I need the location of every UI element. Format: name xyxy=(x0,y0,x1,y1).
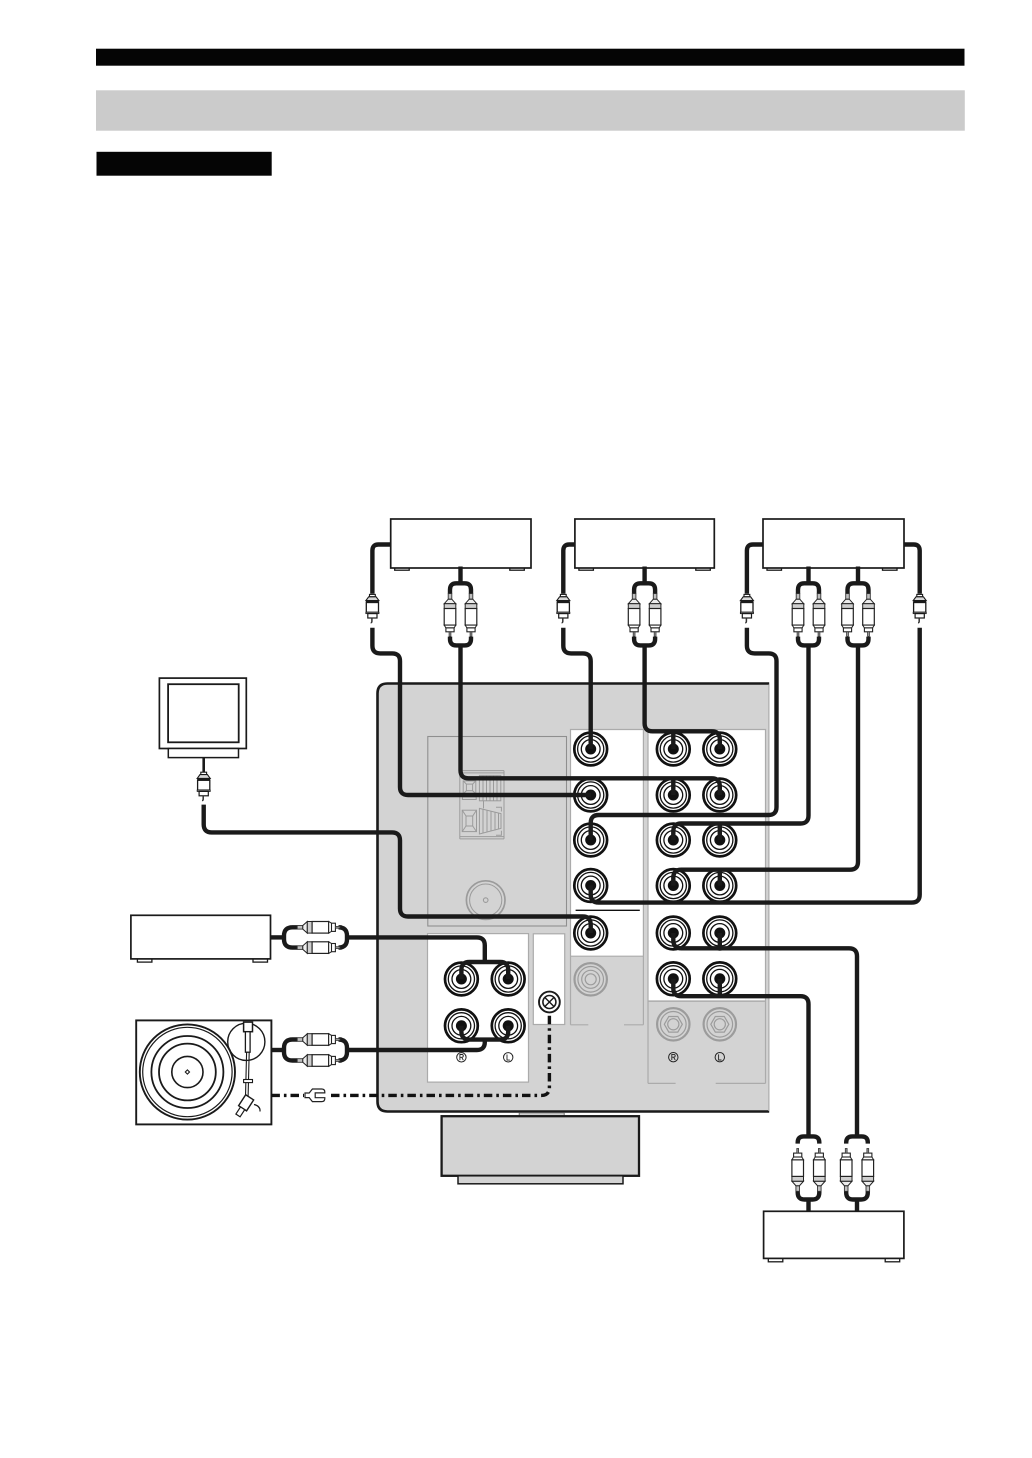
wire W14c: recorder left pair merge bracket xyxy=(798,1191,820,1199)
wire W6a: B3 audio in lead xyxy=(806,567,810,582)
audio jack gray unused R xyxy=(704,1008,736,1040)
wire W7c: B3 audio pair2 merge bracket xyxy=(848,637,869,646)
wire W14e: recorder left pair lead to box xyxy=(806,1200,810,1212)
CD jack R (top pair right) xyxy=(492,963,525,996)
audio jack pair row3 L xyxy=(657,824,690,857)
audio jack pair row6 R xyxy=(703,962,736,995)
wire W9a: TV monitor thin lead xyxy=(202,758,205,772)
CD recorder box feet xyxy=(768,1257,783,1262)
audio jack pair row6 L xyxy=(657,962,690,995)
wire W2c: B1 audio merge bracket xyxy=(450,637,471,646)
wire W3b: B2 video plug to VIDEO row1 jack xyxy=(563,628,590,749)
label L (audio panel) xyxy=(715,1053,724,1062)
wire W2e: row2 left jack stub xyxy=(671,779,675,795)
video jack DVD (row1) xyxy=(574,733,607,766)
video plug P8 (B3 right) xyxy=(913,594,926,622)
audio pair plugs P13 (recorder right, up) xyxy=(840,1149,852,1192)
PHONO jack R xyxy=(492,1009,525,1042)
CD jack L (top pair left) xyxy=(445,963,478,996)
turntable tonearm circle xyxy=(228,1023,265,1060)
wire W6c: B3 audio pair1 merge bracket xyxy=(798,637,819,646)
wire W13b: row6 right jack stub xyxy=(718,979,722,996)
header black bar xyxy=(96,49,965,66)
wire W14a: recorder left pair split bracket xyxy=(798,1136,820,1143)
wire W6b: B3 audio pair1 split bracket xyxy=(798,583,819,593)
audio jack pair row5 R xyxy=(703,917,736,950)
connecting tab under panel xyxy=(519,1113,564,1117)
wire W12a: AUDIO row5 jacks to recorder right pair xyxy=(673,933,857,1137)
video jack VCR IN (row3) xyxy=(574,824,607,857)
wire W8a: B3 video out lead xyxy=(904,545,920,594)
wire W5b: B3 left plug to VIDEO row3 jack xyxy=(591,628,777,840)
cd/phono jack panel xyxy=(428,934,529,1083)
wire W11d: phono cable to PHONO jacks xyxy=(347,1040,485,1050)
CD player box feet xyxy=(137,958,152,963)
pedestal plinth xyxy=(458,1176,623,1184)
audio jack pair row1 R xyxy=(703,733,736,766)
audio pair plugs P7 (B3 pair2) xyxy=(842,594,854,637)
audio jack panel xyxy=(648,730,766,1084)
section gray bar xyxy=(96,90,965,130)
video jack unused (gray) xyxy=(575,963,607,995)
pedestal box below receiver xyxy=(442,1116,639,1176)
video jack strip xyxy=(571,730,644,1025)
label L (cd/phono panel) xyxy=(504,1053,513,1062)
wire W10a: CD player lead xyxy=(271,935,285,939)
label R (cd/phono panel) xyxy=(457,1053,466,1062)
audio jack pair row1 L xyxy=(657,733,690,766)
tonearm thin shaft xyxy=(245,1052,249,1100)
video plug P5 (B3 left) xyxy=(740,594,753,622)
wire W7b: B3 audio pair2 split bracket xyxy=(848,583,869,593)
tonearm headshell cartridge xyxy=(234,1095,254,1118)
ground wire dash-dot segment 2 to GND screw xyxy=(331,1013,549,1095)
wire W14d: recorder right pair merge bracket xyxy=(846,1191,868,1199)
wire W3a: B2 video out lead xyxy=(563,545,575,594)
wire W2b: B1 audio split bracket xyxy=(450,583,471,593)
wire W6e: row3 right jack stub xyxy=(718,824,722,840)
TV monitor screen xyxy=(168,684,239,742)
wire W14b: recorder right pair split bracket xyxy=(846,1136,868,1143)
wire W7a: B3 audio out lead xyxy=(856,567,860,582)
receiver rear panel body xyxy=(378,684,770,1112)
wire W4c: B2 audio merge bracket xyxy=(634,637,655,646)
ground terminal strip xyxy=(533,934,564,1025)
component box B2 feet xyxy=(579,566,594,571)
wire W9b: TV plug to VIDEO MONITOR OUT jack xyxy=(204,805,591,933)
wire W10c: CD merge bracket xyxy=(339,927,348,947)
turntable platter rings xyxy=(140,1024,235,1119)
audio jack pair row5 L xyxy=(657,917,690,950)
video jack D-TV/CBL (row2) xyxy=(574,779,607,812)
audio jack pair row4 R xyxy=(703,869,736,902)
audio pair plugs P6 (B3 pair1) xyxy=(792,594,804,637)
wire W12b: row5 right jack stub xyxy=(718,933,722,948)
wire W7d: B3 audio pair2 to AUDIO row4 jacks xyxy=(673,645,858,885)
video plug P3 (B2) xyxy=(557,594,570,622)
audio pair plugs P4 (B2) xyxy=(628,594,640,637)
component box B3 (VCR) xyxy=(763,519,904,568)
wire W10d: CD cable to CD jacks xyxy=(347,937,485,962)
ground wire spade fork xyxy=(305,1089,325,1102)
component box B1 feet xyxy=(395,566,410,571)
subsection black label box xyxy=(97,152,272,176)
audio jack pair row4 L xyxy=(657,869,690,902)
wire W10b: CD split bracket xyxy=(284,927,297,947)
audio jack pair row2 R xyxy=(703,779,736,812)
TV monitor pedestal xyxy=(168,749,238,758)
wire W6d: B3 audio pair1 to AUDIO row3 jacks xyxy=(673,645,808,840)
audio pair plugs P2 (B1) xyxy=(444,594,456,637)
component box B3 feet xyxy=(767,566,782,571)
wire W5a: B3 video in lead xyxy=(747,545,763,594)
label R (audio panel) xyxy=(669,1053,678,1062)
audio jack gray unused L xyxy=(657,1008,689,1040)
PHONO jack L xyxy=(445,1009,478,1042)
wire W10e: CD jack staple xyxy=(461,962,508,979)
wire W4b: B2 audio split bracket xyxy=(634,583,655,593)
wire W2a: B1 audio out lead xyxy=(458,567,462,582)
audio jack pair row3 R xyxy=(703,824,736,857)
wire W14f: recorder right pair lead to box xyxy=(855,1200,859,1212)
wire W13a: AUDIO row6 jacks to recorder left pair xyxy=(673,979,808,1137)
CD player box xyxy=(131,915,271,959)
audio pair plugs P11 (phono, horizontal) xyxy=(297,1034,340,1046)
audio pair plugs P12 (recorder left, up) xyxy=(792,1149,804,1192)
wire W8b: B3 right plug to VIDEO row4 jack xyxy=(591,628,920,903)
turntable box xyxy=(136,1020,271,1124)
wire W1a: B1 video out lead xyxy=(372,545,390,594)
headshell lead wire xyxy=(254,1105,260,1112)
wire W1b: B1 video plug to VIDEO row2 jack xyxy=(372,628,590,795)
wire W4e: row1 left jack stub xyxy=(671,732,675,749)
video jack MONITOR OUT (row5) xyxy=(574,917,607,950)
antenna jack circle xyxy=(466,881,505,920)
inner silver sub-panel xyxy=(428,737,567,927)
wire W2d: B1 audio to AUDIO row2 jacks xyxy=(461,645,720,795)
video jack VCR OUT (row4) xyxy=(574,869,607,902)
wire W7e: row4 right jack stub xyxy=(718,870,722,885)
GND screw terminal xyxy=(539,992,560,1013)
video plug P1 (B1) xyxy=(366,594,379,622)
audio pair plugs P10 (CD, horizontal) xyxy=(297,922,340,934)
component box B1 (DVD player) xyxy=(391,519,531,568)
video plug P9 (TV monitor) xyxy=(197,772,210,800)
CD recorder box (bottom right) xyxy=(764,1211,904,1258)
monitor-out divider line xyxy=(576,909,640,911)
component box B2 (TV/satellite tuner) xyxy=(575,519,714,568)
wire W4a: B2 audio out lead xyxy=(642,567,646,582)
audio jack pair row2 L xyxy=(657,779,690,812)
ground wire dash-dot segment 1 xyxy=(271,1094,304,1097)
wire W4d: B2 audio to AUDIO row1 jacks xyxy=(645,645,720,749)
wire W11e: PHONO jack staple xyxy=(461,1026,508,1040)
speaker terminal drawing (gray) xyxy=(460,771,504,839)
wire W11c: phono merge bracket xyxy=(339,1040,348,1061)
wire W11a: turntable lead xyxy=(271,1048,284,1052)
tonearm upper shaft xyxy=(245,1032,250,1053)
tonearm rest clip xyxy=(244,1080,253,1083)
TV monitor outer box xyxy=(159,678,246,748)
wire W11b: phono split bracket xyxy=(284,1040,297,1061)
tonearm pivot block xyxy=(244,1022,253,1032)
